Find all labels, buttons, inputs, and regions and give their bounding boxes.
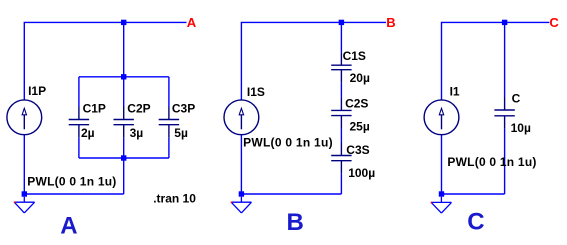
svg-text:C1S: C1S [343, 49, 366, 63]
svg-text:2µ: 2µ [81, 126, 95, 140]
svg-text:C: C [512, 92, 521, 106]
svg-text:PWL(0 0 1n 1u): PWL(0 0 1n 1u) [243, 136, 333, 150]
svg-text:A: A [187, 15, 197, 30]
svg-text:C3P: C3P [172, 101, 195, 115]
svg-text:.tran 10: .tran 10 [153, 191, 196, 205]
svg-text:25µ: 25µ [350, 119, 370, 133]
svg-text:A: A [60, 213, 77, 240]
svg-text:C1P: C1P [83, 101, 106, 115]
svg-text:B: B [287, 209, 304, 236]
svg-text:I1: I1 [450, 85, 460, 99]
svg-text:I1P: I1P [28, 84, 46, 98]
svg-text:C2P: C2P [127, 101, 150, 115]
svg-text:I1S: I1S [247, 85, 265, 99]
svg-text:PWL(0 0 1n 1u): PWL(0 0 1n 1u) [447, 155, 536, 169]
svg-text:20µ: 20µ [350, 71, 370, 85]
svg-text:5µ: 5µ [174, 126, 188, 140]
svg-text:C: C [549, 15, 559, 30]
svg-text:C: C [467, 209, 484, 236]
svg-text:C3S: C3S [346, 143, 369, 157]
svg-text:10µ: 10µ [511, 121, 531, 135]
svg-text:B: B [386, 15, 395, 30]
svg-text:C2S: C2S [345, 97, 368, 111]
svg-text:100µ: 100µ [348, 166, 375, 180]
svg-text:3µ: 3µ [130, 126, 144, 140]
svg-text:PWL(0 0 1n 1u): PWL(0 0 1n 1u) [27, 175, 116, 189]
